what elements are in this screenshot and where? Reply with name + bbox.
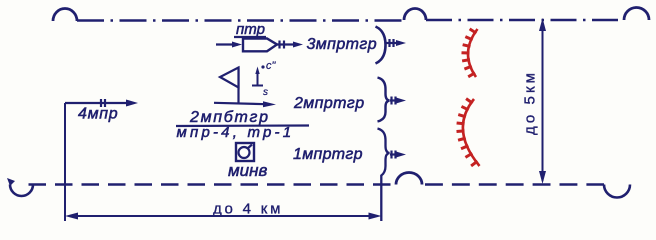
svg-text:птр: птр	[236, 21, 265, 38]
svg-text:до 5км: до 5км	[522, 70, 539, 135]
svg-text:минв: минв	[228, 161, 267, 180]
svg-text:3мпртгр: 3мпртгр	[307, 36, 378, 53]
svg-text:2мпртгр: 2мпртгр	[293, 95, 365, 112]
svg-text:4мпр: 4мпр	[78, 106, 118, 123]
svg-text:с": с"	[266, 60, 277, 72]
svg-text:мпр-4, тр-1: мпр-4, тр-1	[177, 124, 295, 141]
svg-text:1мпртгр: 1мпртгр	[293, 146, 363, 163]
svg-text:до 4 км: до 4 км	[213, 201, 283, 218]
svg-text:s: s	[263, 87, 268, 98]
